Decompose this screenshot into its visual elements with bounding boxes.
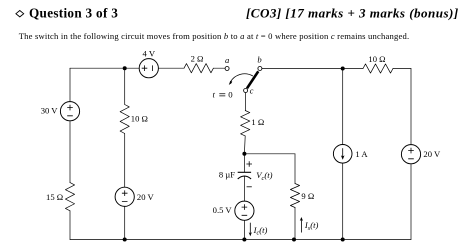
svg-text:[CO3] [17 marks + 3 marks (bon: [CO3] [17 marks + 3 marks (bonus)] (246, 6, 459, 21)
wire node row horizontal (244, 153, 295, 155)
title heading (16, 6, 118, 21)
terminal c (244, 89, 248, 93)
svg-text:0: 0 (228, 89, 233, 99)
resistor 9ohm (290, 184, 299, 208)
svg-text:c: c (250, 86, 254, 96)
svg-text:15 Ω: 15 Ω (46, 192, 63, 202)
wire left edge middle (69, 121, 71, 183)
svg-text:4 V: 4 V (143, 48, 156, 58)
wire 9ohm branch top (294, 154, 296, 184)
capacitor plus sign (246, 161, 252, 167)
resistor 2ohm (184, 64, 213, 73)
wire bottom rail (70, 239, 411, 241)
svg-text:8 µF: 8 µF (219, 169, 235, 179)
wire right edge upper (410, 69, 412, 145)
wire 0.5V to bottom (243, 220, 245, 239)
wire 1A branch top (342, 69, 344, 145)
wire 4V to 2ohm (158, 67, 184, 69)
wire node to 10ohm horizontal (343, 68, 363, 70)
wire terminal b to node (262, 68, 343, 70)
wire 1ohm to node (243, 136, 246, 154)
current arrow Is(t) (300, 217, 303, 233)
voltage source 0.5V (235, 201, 254, 220)
voltage source 4V (139, 59, 158, 78)
wire capacitor to 0.5V (243, 177, 245, 202)
svg-text:a: a (225, 55, 229, 65)
wire 9ohm branch bottom (294, 208, 296, 240)
resistor 15ohm (65, 183, 74, 211)
wire 10ohm to right edge (393, 68, 411, 70)
svg-text:10 Ω: 10 Ω (131, 114, 148, 124)
junction dot bottom cap branch (242, 238, 246, 242)
svg-text:Question 3 of 3: Question 3 of 3 (29, 6, 118, 21)
label t=0 (213, 89, 234, 99)
wire left edge upper (69, 68, 71, 102)
wire left edge bottom (69, 211, 71, 240)
svg-text:20 V: 20 V (423, 149, 441, 159)
svg-text:2 Ω: 2 Ω (191, 54, 204, 64)
svg-text:30 V: 30 V (41, 106, 59, 116)
wire second column middle (124, 134, 126, 188)
resistor 1ohm (241, 111, 250, 136)
svg-text:10 Ω: 10 Ω (368, 54, 385, 64)
svg-text:The switch in the following ci: The switch in the following circuit move… (19, 31, 410, 41)
wire node to capacitor (243, 154, 245, 172)
current source 1A (333, 145, 352, 164)
terminal b (258, 67, 262, 71)
junction dot top node (123, 66, 127, 70)
wire 1A branch bottom (342, 163, 344, 240)
voltage source 30V (60, 102, 79, 121)
resistor 10ohm vertical (120, 105, 129, 134)
junction dot bottom col2 (123, 238, 127, 242)
capacitor 8uF (238, 172, 251, 179)
junction dot bottom 9ohm branch (292, 238, 296, 242)
junction dot below 1ohm (242, 152, 246, 156)
svg-text:1 Ω: 1 Ω (251, 117, 264, 127)
capacitor minus sign (247, 186, 252, 188)
svg-text:1 A: 1 A (355, 149, 368, 159)
switch motion arrow (229, 74, 253, 85)
wire switch c down (245, 93, 247, 111)
wire top-left rail (70, 67, 139, 69)
current arrow Ic(t) (249, 223, 252, 237)
wire second column top (124, 68, 126, 104)
svg-text:20 V: 20 V (137, 192, 155, 202)
wire 2ohm to terminal a (213, 67, 225, 69)
wire right edge lower (410, 164, 412, 240)
svg-text:0.5 V: 0.5 V (213, 205, 233, 215)
terminal a (225, 67, 229, 71)
junction dot bottom 1A branch (341, 238, 345, 242)
voltage source 20V column2 (115, 187, 134, 206)
switch arm (247, 71, 258, 88)
svg-text:9 Ω: 9 Ω (301, 191, 314, 201)
svg-text:b: b (257, 55, 262, 65)
wire second column bottom (124, 206, 126, 239)
voltage source 20V right (401, 145, 420, 164)
resistor 10ohm horizontal (363, 64, 393, 73)
junction dot b-10ohm node (341, 67, 345, 71)
